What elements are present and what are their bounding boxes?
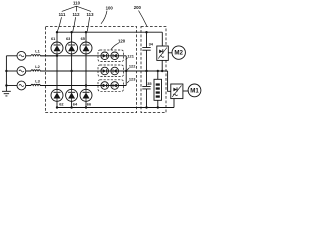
- leg1 wire: [56, 32, 58, 107]
- switch 2a: [101, 67, 109, 75]
- node dot mid vertical: [125, 70, 127, 72]
- AC source V1: [6, 55, 17, 57]
- dc-link dashed box 200: [141, 27, 166, 113]
- midpoint vertical bus: [125, 56, 127, 86]
- leader 120: [111, 43, 119, 50]
- ground: [2, 91, 11, 96]
- bidirectional switch row 1 box: [98, 50, 124, 62]
- svg-text:100: 100: [106, 6, 114, 11]
- battery: [154, 79, 162, 100]
- phase 2 wire to switch row 2: [40, 70, 126, 72]
- junction on left bus phase2: [5, 70, 7, 72]
- node dot leg1 bottom: [56, 106, 58, 108]
- inverter U2 tap to mid bus: [161, 60, 163, 71]
- node dot phase1-leg1: [56, 55, 58, 57]
- node dot battery top: [157, 70, 159, 72]
- junction on left bus phase3: [5, 84, 7, 86]
- leader 112 to leg2: [73, 17, 76, 31]
- left neutral bus wire: [5, 56, 7, 92]
- diode 66: [80, 89, 92, 101]
- svg-text:200: 200: [134, 5, 142, 10]
- diode 62: [51, 89, 63, 101]
- node dot leg3 bottom: [85, 106, 87, 108]
- svg-text:120: 120: [118, 38, 126, 43]
- converter dashed box 100: [46, 27, 137, 113]
- diode 64: [66, 89, 78, 101]
- node dot leg2 bottom: [70, 106, 72, 108]
- switch 1a: [101, 52, 109, 60]
- inverter U1 bottom stub to negative bus: [173, 99, 175, 108]
- phase 3 wire to switch row 3: [40, 85, 126, 87]
- svg-text:121: 121: [127, 53, 134, 58]
- leader 113 to leg3: [87, 17, 89, 31]
- switch 1b: [111, 52, 119, 60]
- svg-text:110: 110: [73, 0, 81, 5]
- node dot leg2 top: [70, 31, 72, 33]
- phase 1 wire to switch row 1: [40, 55, 126, 57]
- wire U1 to M1: [183, 90, 189, 92]
- inverter U2 feed from positive bus: [161, 32, 163, 46]
- svg-text:M2: M2: [174, 50, 183, 57]
- motor M1: [188, 84, 201, 97]
- node dot battery bottom: [157, 106, 159, 108]
- leader fan from 110: [62, 6, 91, 11]
- switch 3a: [101, 82, 109, 90]
- node dot inverter1 bottom tap: [161, 70, 163, 72]
- leader 111 to leg1: [57, 17, 61, 31]
- leg2 wire: [71, 32, 73, 107]
- svg-text:113: 113: [87, 12, 95, 17]
- inverter U2: [157, 46, 169, 60]
- AC source V3: [6, 85, 17, 87]
- switch 2b: [111, 67, 119, 75]
- node dot phase2-leg2: [70, 70, 72, 72]
- leg3 wire: [85, 32, 87, 107]
- svg-text:122: 122: [129, 64, 136, 69]
- negative dc bus: [57, 107, 174, 109]
- svg-text:M1: M1: [190, 87, 199, 94]
- node dot leg3 top: [85, 31, 87, 33]
- inverter U1: [171, 84, 183, 99]
- bidirectional switch row 2 box: [98, 65, 124, 77]
- svg-text:112: 112: [73, 12, 81, 17]
- mid bus corner to inverter U1: [168, 71, 171, 91]
- motor M2: [172, 46, 185, 59]
- battery wire bottom: [157, 100, 159, 107]
- bidirectional switch row 3 box: [98, 80, 124, 92]
- switch 3b: [111, 82, 119, 90]
- svg-text:123: 123: [129, 77, 136, 82]
- leader 100 to box: [101, 11, 107, 24]
- node dot leg1 top: [56, 31, 58, 33]
- svg-text:111: 111: [59, 12, 66, 17]
- node dot phase3-leg3: [85, 84, 87, 86]
- battery wire top: [157, 71, 159, 79]
- leader 200 to box: [139, 11, 147, 27]
- wire U2 to M2: [168, 52, 172, 54]
- mid dc bus: [126, 70, 167, 72]
- node dot cap mid: [145, 70, 147, 72]
- AC source V2: [6, 70, 17, 72]
- node dot cap top: [145, 31, 147, 33]
- node dot cap bottom: [145, 106, 147, 108]
- positive dc bus: [57, 31, 162, 33]
